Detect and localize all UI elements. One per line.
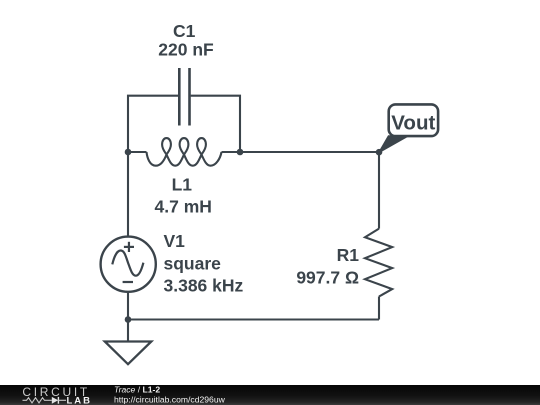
wire top-right from plate to right corner down to node	[191, 96, 240, 152]
svg-text:http://circuitlab.com/cd296uw: http://circuitlab.com/cd296uw	[114, 394, 226, 404]
svg-text:R1: R1	[337, 245, 360, 265]
wire node A to inductor entry	[128, 151, 147, 153]
voltage source V1	[101, 237, 156, 292]
svg-text:Vout: Vout	[391, 111, 435, 134]
resistor R1	[365, 229, 392, 297]
wire node Vout down to resistor	[378, 152, 380, 229]
svg-text:4.7 mH: 4.7 mH	[155, 197, 212, 217]
svg-text:220 nF: 220 nF	[158, 40, 214, 60]
footer bar	[0, 385, 540, 405]
svg-text:square: square	[164, 254, 222, 274]
node A (left junction)	[125, 149, 132, 156]
wire node A down to V1 top	[127, 152, 129, 237]
wire bottom horizontal	[128, 318, 379, 320]
wire V1 bottom to ground node	[127, 291, 129, 320]
node B (right LC junction)	[237, 149, 244, 156]
svg-text:C1: C1	[173, 21, 196, 41]
svg-text:997.7 Ω: 997.7 Ω	[296, 267, 359, 287]
ground	[105, 320, 152, 365]
wire node B to node Vout	[240, 151, 379, 153]
wire top-left from C/L loop top to plate	[128, 96, 178, 152]
svg-text:L1: L1	[172, 175, 193, 195]
svg-text:V1: V1	[164, 231, 186, 251]
Vout callout	[379, 104, 438, 152]
node Vout junction	[376, 149, 383, 156]
svg-text:LAB: LAB	[67, 395, 93, 405]
inductor L1	[147, 138, 222, 166]
node ground junction	[125, 316, 132, 323]
logo resistor-diode glyph	[23, 398, 52, 403]
capacitor C1	[179, 68, 189, 126]
svg-text:3.386 kHz: 3.386 kHz	[164, 276, 244, 296]
wire resistor bottom to corner	[378, 297, 380, 320]
wire inductor exit to node B	[222, 151, 241, 153]
svg-text:Trace / L1-2: Trace / L1-2	[114, 385, 160, 395]
